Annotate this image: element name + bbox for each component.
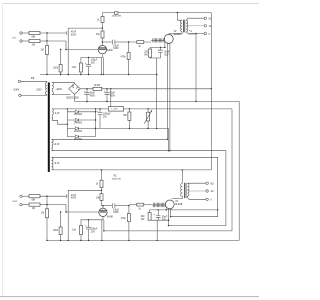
- diode D4 1N4002: [67, 127, 95, 130]
- winding W3 6.3V rectifier: [52, 109, 54, 120]
- svg-text:1k 5W: 1k 5W: [94, 85, 101, 87]
- secondary winding: [186, 20, 188, 32]
- svg-text:630V: 630V: [113, 212, 119, 214]
- node j1: [46, 40, 47, 41]
- mains terminal lower: [19, 94, 21, 96]
- resistor R22 1M: [29, 203, 40, 206]
- terminal 4ohm B: [206, 190, 208, 192]
- wire cathode ground2: [150, 220, 169, 240]
- capacitor C7 1000uF 25V: [99, 109, 101, 128]
- plate load chain: rail corner: [103, 13, 212, 17]
- wire: [21, 94, 47, 97]
- svg-text:1M: 1M: [41, 49, 44, 51]
- resistor R5 1k cathode: [79, 63, 82, 72]
- tube V4 6L6 output: [165, 200, 174, 209]
- wire W3 top lead: [52, 108, 108, 110]
- svg-text:IN R: IN R: [13, 201, 18, 203]
- wire: [22, 195, 29, 197]
- node j21: [46, 204, 47, 205]
- resistor R12 1k 5W rail: [93, 87, 102, 90]
- svg-text:6AN8: 6AN8: [107, 49, 113, 52]
- capacitor C4 50uF: [160, 47, 162, 58]
- node j3: [60, 49, 61, 50]
- node grid junction: [128, 41, 129, 42]
- resistor R4 100k: [59, 65, 62, 73]
- node k1: [88, 57, 89, 58]
- wire: [46, 196, 48, 204]
- node diode left rail: [67, 108, 68, 109]
- heater drops bottom tube: [169, 209, 171, 226]
- capacitor C2 100uF: [88, 57, 90, 74]
- wire plate to OPT2: [172, 198, 183, 199]
- transformer TR1 core: [48, 83, 50, 173]
- resistor R11 220 5W: [149, 49, 152, 57]
- resistor R10 grid stop 1k: [137, 41, 144, 44]
- tube V3a triode: [99, 208, 107, 216]
- wire: [40, 204, 47, 206]
- resistor R6 100k: [101, 16, 104, 22]
- node grid junction2: [128, 205, 129, 206]
- svg-text:1N4002: 1N4002: [74, 131, 83, 133]
- svg-text:L-CH: L-CH: [189, 34, 195, 36]
- heater winding W2 6.3V: [52, 157, 53, 170]
- wire HT to bridge: [52, 82, 75, 85]
- wire W3 bottom lead: [52, 120, 68, 124]
- polarity marks: [84, 49, 160, 227]
- bias wire: [96, 128, 169, 150]
- heater wire W1 top: [52, 138, 168, 140]
- ground bus bottom channel: [47, 239, 239, 241]
- heater winding W1 6.3V: [52, 139, 54, 150]
- resistor R7 22k: [101, 31, 104, 38]
- capacitor C1 47pF feedback: [66, 31, 68, 35]
- ground rail: [75, 101, 240, 103]
- output transformer T1: [169, 13, 212, 36]
- node B+ to choke: [110, 88, 111, 89]
- choke rail drop: [104, 109, 232, 231]
- svg-text:1M: 1M: [32, 208, 35, 210]
- potentiometer P1: [147, 112, 150, 121]
- wire 0-terminal ground drop: [195, 34, 197, 102]
- choke L1: [108, 107, 123, 111]
- wire: [22, 204, 29, 206]
- svg-text:L 10H: L 10H: [112, 109, 118, 111]
- diode D2 1N4002: [67, 110, 95, 113]
- resistor R29 grid stop 1k: [137, 203, 144, 206]
- plate load chain bottom: [101, 170, 103, 180]
- secondary winding: [187, 183, 189, 197]
- svg-text:6,3V: 6,3V: [55, 113, 60, 115]
- page border frame: [2, 3, 259, 5]
- coupling wire: [103, 205, 112, 207]
- terminal 4ohm: [204, 25, 206, 27]
- node plate: [102, 41, 103, 42]
- heater wire W2 bottom: [52, 169, 212, 171]
- resistor R21 68k: [29, 195, 40, 198]
- svg-text:100k: 100k: [53, 67, 59, 69]
- svg-text:630V: 630V: [71, 198, 77, 200]
- capacitor C5 50uF 450V: [86, 89, 88, 102]
- wire: [40, 195, 66, 197]
- wire feedback to node2: [68, 190, 101, 240]
- svg-text:100µF: 100µF: [91, 228, 98, 230]
- resistor R28 470k: [127, 214, 130, 222]
- transformer TR1 primary winding: [45, 83, 47, 95]
- svg-text:47pF: 47pF: [71, 32, 77, 34]
- heater wires: [102, 220, 104, 241]
- resistor R30 220 5W: [148, 213, 151, 221]
- ground right drop: [238, 102, 240, 241]
- heater wire W1 bottom: [52, 151, 226, 226]
- wire: [46, 33, 48, 41]
- svg-text:1M: 1M: [32, 44, 35, 46]
- svg-text:~6.3V: ~6.3V: [54, 163, 61, 165]
- node chain: [102, 27, 103, 28]
- svg-text:100Ω 5W: 100Ω 5W: [112, 179, 122, 181]
- svg-text:450V: 450V: [90, 95, 96, 97]
- svg-text:1N4002: 1N4002: [74, 114, 83, 116]
- svg-text:25V: 25V: [91, 231, 96, 233]
- core: [184, 183, 186, 198]
- capacitor C3 0.5uF: [113, 40, 115, 45]
- svg-text:100Ω 5W: 100Ω 5W: [112, 16, 122, 18]
- coupling wire: [102, 41, 112, 43]
- diode D5 1N4002: [67, 135, 95, 138]
- wire grid feed: [47, 41, 98, 50]
- wire: [60, 212, 62, 240]
- wire cathode: [150, 43, 165, 49]
- svg-text:6AN8: 6AN8: [107, 216, 113, 219]
- resistor R23 1M: [46, 209, 49, 218]
- capacitor C24 50uF: [157, 210, 159, 220]
- ground bus top channel: [40, 74, 157, 76]
- resistor R8 rail 100R 5W: [115, 12, 118, 15]
- svg-text:50µF: 50µF: [164, 51, 170, 53]
- terminal 8ohm B: [206, 182, 208, 184]
- svg-text:8Ω: 8Ω: [211, 183, 214, 185]
- wire feedback to node: [68, 28, 102, 74]
- primary winding: [181, 183, 183, 197]
- svg-text:230V: 230V: [36, 89, 42, 91]
- svg-text:25V: 25V: [103, 116, 108, 118]
- wire: [22, 32, 29, 34]
- node k2: [88, 219, 89, 220]
- svg-text:6L6GB: 6L6GB: [175, 204, 183, 206]
- resistor R26 100k: [100, 180, 103, 187]
- svg-text:1000µF: 1000µF: [103, 113, 111, 115]
- svg-text:100k: 100k: [53, 230, 59, 232]
- resistor R9 470k: [127, 52, 130, 59]
- svg-text:4Ω: 4Ω: [211, 191, 214, 193]
- resistor R13 50k: [128, 112, 131, 120]
- resistor R1 68k: [29, 31, 40, 34]
- node j23: [60, 211, 61, 212]
- wire diode right rail: [95, 109, 97, 137]
- wire cathode: [81, 217, 103, 226]
- tube V2 6L6 output: [164, 34, 173, 43]
- resistor R27 22k: [100, 194, 103, 201]
- heater wire W2 top: [52, 157, 218, 216]
- svg-text:470k: 470k: [121, 218, 127, 220]
- svg-text:100µF: 100µF: [91, 60, 98, 62]
- svg-text:50µF: 50µF: [90, 93, 96, 95]
- heater wires: [101, 57, 103, 74]
- resistor R2 1M: [29, 39, 40, 42]
- resistor R3 1M: [46, 46, 49, 55]
- node j2: [65, 49, 66, 50]
- diode D3 1N4002: [67, 118, 95, 121]
- wire: [21, 81, 47, 82]
- resistor R24 100k: [59, 227, 62, 235]
- B+ right riser: [210, 13, 212, 170]
- wire plate: [101, 42, 103, 45]
- wire: [46, 41, 48, 75]
- wire choke out rail: [124, 108, 232, 110]
- secondary HT winding: [52, 83, 54, 95]
- svg-text:6L6GB: 6L6GB: [174, 34, 182, 36]
- node plate2: [102, 205, 103, 206]
- wire: [46, 205, 48, 241]
- terminal 0 B: [206, 198, 208, 200]
- svg-text:470k: 470k: [120, 57, 126, 59]
- capacitor C21 47pF feedback: [66, 194, 68, 198]
- svg-text:1M: 1M: [41, 212, 44, 214]
- wire: [40, 40, 47, 42]
- svg-text:~6.3V: ~6.3V: [54, 144, 61, 146]
- output transformer T2: [181, 169, 214, 201]
- node j22: [65, 211, 66, 212]
- svg-text:+230V: +230V: [55, 89, 62, 91]
- svg-text:B250C1500: B250C1500: [67, 98, 80, 100]
- svg-text:47pF: 47pF: [71, 195, 77, 197]
- capacitor C22 100uF: [88, 220, 90, 241]
- capacitor C23 0.5uF: [113, 203, 115, 208]
- resistor R25 1k cathode: [80, 226, 83, 235]
- tube V1a triode: [98, 45, 106, 53]
- input jack J1 L: [20, 32, 22, 34]
- secondary leads: [186, 18, 204, 20]
- heater/screen drops: [167, 43, 170, 151]
- svg-text:25V: 25V: [91, 63, 96, 65]
- svg-text:~230V: ~230V: [13, 89, 20, 91]
- wire grid feed: [47, 205, 98, 212]
- wire bridge +: [80, 88, 211, 90]
- wire: [80, 72, 82, 75]
- capacitor C6 50uF 450V: [106, 89, 108, 102]
- svg-text:1N4002: 1N4002: [74, 122, 83, 124]
- wire cathode bottom: [150, 208, 218, 220]
- wire diode left rail: [66, 109, 68, 137]
- wire plate: [102, 206, 104, 208]
- wire: [40, 32, 66, 34]
- node chain2: [101, 190, 102, 191]
- secondary leads: [187, 182, 206, 184]
- wire cathode ground: [150, 57, 160, 128]
- wire bridge minus: [74, 94, 76, 101]
- primary winding: [181, 20, 183, 32]
- input jack J2 R: [20, 195, 22, 197]
- svg-text:50µF: 50µF: [162, 216, 168, 218]
- wire: [60, 50, 62, 75]
- wire cathode: [81, 54, 103, 63]
- svg-text:630V: 630V: [71, 34, 77, 36]
- wire plate to OPT: [168, 33, 170, 36]
- svg-text:50V: 50V: [164, 54, 169, 56]
- svg-text:630V: 630V: [113, 48, 119, 50]
- wire: [80, 235, 82, 241]
- terminal 8ohm: [204, 17, 206, 19]
- node B+ tap: [177, 12, 178, 13]
- mains terminal upper: [18, 80, 20, 82]
- core: [183, 20, 184, 33]
- bridge rectifier D1: [69, 83, 81, 94]
- wire: [22, 40, 29, 42]
- terminal 0: [204, 32, 206, 34]
